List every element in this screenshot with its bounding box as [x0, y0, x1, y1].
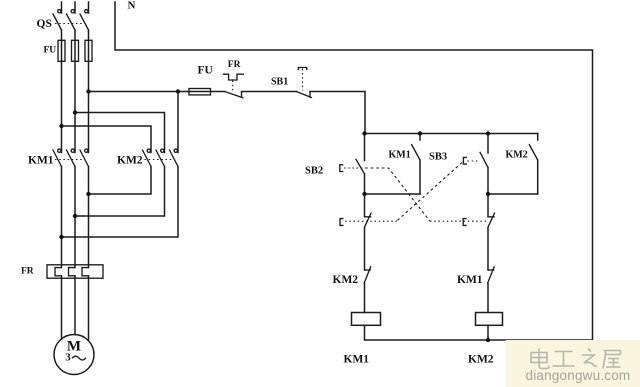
svg-text:QS: QS — [37, 18, 52, 30]
contactor KM2 main contacts — [142, 149, 178, 166]
wire phase L3 vertical runs — [88, 2, 90, 341]
wire control line from L3 tap — [89, 91, 225, 93]
svg-text:FR: FR — [21, 267, 34, 277]
svg-text:N: N — [128, 0, 136, 12]
fuse FU (main, 3x) — [58, 40, 92, 61]
wire dashed SB2 to right NC (diagonal) — [365, 168, 430, 221]
fuse FU (control) — [189, 89, 211, 95]
pushbutton SB2 (NO start fwd) — [340, 134, 365, 195]
svg-text:KM2: KM2 — [333, 274, 359, 286]
wire KM2 col1 crossover to L3 — [89, 167, 152, 195]
node tap L1 — [59, 124, 63, 128]
svg-text:KM2: KM2 — [468, 354, 494, 366]
contactor KM2 aux NO (self hold) — [488, 134, 538, 195]
watermark box — [506, 340, 640, 387]
wire phase L2 vertical runs — [74, 2, 76, 335]
svg-text:SB1: SB1 — [271, 77, 288, 88]
svg-text:KM2: KM2 — [506, 150, 528, 161]
contactor KM1 main contacts — [53, 149, 89, 166]
svg-text:KM1: KM1 — [344, 354, 370, 366]
node tap on control line to KM2 col3 — [176, 89, 180, 93]
watermark 工 — [553, 352, 575, 367]
wire tap L1 to KM2 col1 — [62, 126, 152, 153]
wire dashed SB3 to left NC (diagonal) — [397, 163, 462, 221]
wire tap L2 to KM2 col2 — [75, 113, 165, 153]
svg-text:FU: FU — [44, 46, 57, 56]
contactor KM2 NC interlock (left) — [364, 266, 371, 312]
node crossover L1 — [59, 235, 63, 239]
thermal relay FR heater element — [47, 265, 103, 278]
watermark 电 — [531, 349, 549, 369]
wire KM2 col3 down from control line — [177, 92, 179, 153]
node SB2/KM1 join — [362, 192, 366, 196]
wire control bus — [365, 133, 538, 135]
node bus-SB3 — [486, 131, 490, 135]
svg-text:KM1: KM1 — [389, 150, 411, 161]
svg-text:SB3: SB3 — [429, 152, 447, 163]
watermark 屋 — [603, 351, 621, 369]
pushbutton SB3 NC contact (in KM1 branch) — [340, 194, 371, 270]
svg-text:KM1: KM1 — [457, 274, 483, 286]
wire KM2 col3 crossover to L1 — [62, 167, 179, 238]
svg-text:KM1: KM1 — [28, 155, 54, 167]
wire KM2 col2 crossover to L2 — [75, 167, 165, 217]
node tap L2 — [73, 110, 77, 114]
node crossover L3 — [86, 192, 90, 196]
node SB3/KM2 join — [486, 192, 490, 196]
svg-text:SB2: SB2 — [305, 166, 323, 177]
motor M 3~ — [54, 335, 94, 375]
wire phase L1 vertical runs — [61, 2, 63, 339]
node coil KM2 to return — [486, 338, 490, 342]
contactor KM1 aux NO (self hold) — [365, 134, 421, 195]
svg-text:diangongwu.com: diangongwu.com — [526, 368, 631, 383]
wire N bus — [115, 2, 593, 340]
node tap L3 to control — [86, 89, 90, 93]
node bus-SB2 — [362, 131, 366, 135]
svg-text:FR: FR — [228, 60, 241, 70]
node crossover L2 — [73, 214, 77, 218]
svg-text:3: 3 — [65, 353, 70, 364]
wire coils to N return — [365, 325, 593, 340]
wire FR to SB1 — [242, 91, 297, 93]
contactor KM1 NC interlock (right) — [487, 266, 494, 312]
thermal relay FR contact (NC) — [223, 74, 244, 98]
switch QS 3-pole knife switch — [53, 10, 89, 30]
node bus-KM1aux — [418, 131, 422, 135]
wire SB1 to bus corner — [310, 92, 365, 134]
watermark 之 — [582, 349, 597, 367]
svg-text:FU: FU — [198, 65, 214, 77]
svg-text:KM2: KM2 — [117, 155, 143, 167]
pushbutton SB3 (NO start rev) — [463, 134, 488, 195]
coil KM1 — [352, 313, 381, 326]
pushbutton SB1 (NC stop) — [296, 68, 312, 98]
coil KM2 — [476, 313, 503, 326]
pushbutton SB2 NC contact (in KM2 branch) — [463, 194, 495, 270]
